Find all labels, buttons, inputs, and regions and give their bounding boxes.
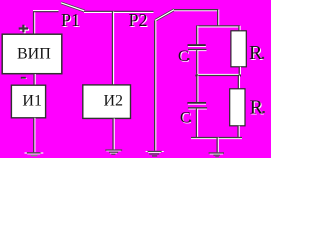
box I1 (load 1): [11, 85, 45, 118]
svg-text:Р1: Р1: [61, 10, 80, 30]
junction node right: [238, 74, 241, 77]
plus terminal label: [19, 25, 29, 34]
capacitor C2: [187, 102, 207, 110]
svg-text:И2: И2: [104, 92, 124, 109]
wire: middle rail: [195, 74, 241, 77]
ground under I1: [25, 152, 44, 156]
wire: R1 top lead: [239, 26, 240, 31]
wire: C1 bottom lead: [197, 50, 198, 75]
wire: ground stem right: [217, 138, 218, 153]
wire: I2 bottom to ground: [113, 118, 114, 149]
wire: P2 pivot down to ground: [155, 20, 156, 150]
wire: branch down to I2: [112, 12, 113, 86]
switch P1 blade: [61, 3, 85, 11]
wire: R2 top lead: [238, 76, 239, 89]
minus terminal label: [21, 77, 27, 79]
switch P2 blade: [155, 10, 174, 21]
svg-text:И1: И1: [22, 93, 42, 110]
wire: C1 top lead: [197, 26, 198, 45]
svg-text:R: R: [250, 96, 264, 118]
box VIP (power source): [2, 34, 62, 73]
ground right circuit: [209, 152, 224, 157]
wire: C2 top lead: [197, 76, 198, 103]
wire: C2 bottom lead: [196, 109, 197, 138]
ground under P2: [146, 151, 164, 157]
wire: top rail middle segment (P1 to P2): [84, 11, 154, 12]
wire: top rail left segment (to P1): [33, 11, 59, 12]
svg-text:ВИП: ВИП: [17, 46, 51, 63]
svg-text:C: C: [180, 110, 191, 127]
junction node left: [195, 74, 198, 77]
resistor R1: [231, 31, 246, 67]
svg-text:C: C: [178, 48, 189, 65]
svg-text:Р2: Р2: [129, 10, 148, 30]
box I2 (load 2): [83, 85, 131, 119]
ground under I2: [105, 149, 122, 154]
wire: top rail of RC network: [196, 26, 240, 27]
wire: R1 bottom lead: [239, 67, 240, 76]
wire: I1 bottom to ground: [34, 118, 35, 153]
svg-text:R: R: [249, 42, 263, 64]
wire: VIP bottom to I1: [34, 74, 35, 85]
wire: R2 bottom lead: [238, 126, 239, 138]
resistor R2: [230, 89, 245, 126]
capacitor C1: [188, 44, 207, 51]
wire: bottom rail: [191, 138, 242, 139]
wire: P2 to right circuit, top horizontal: [174, 10, 218, 11]
wire: feed corner down: [218, 10, 219, 26]
wire: VIP top lead: [34, 12, 35, 35]
